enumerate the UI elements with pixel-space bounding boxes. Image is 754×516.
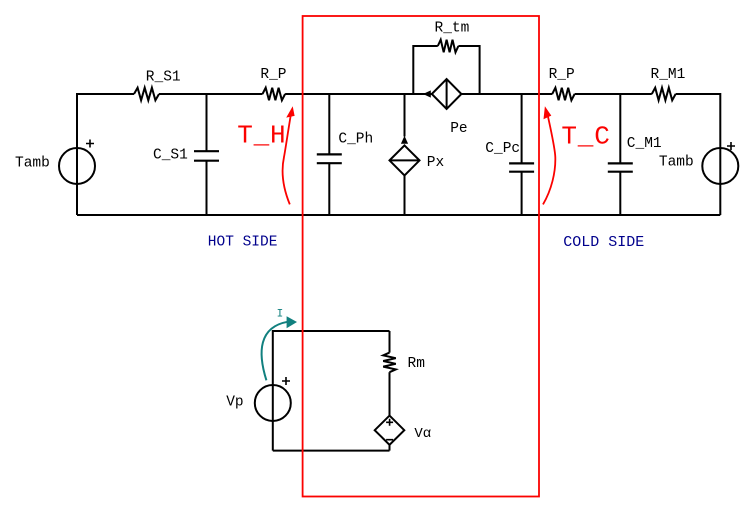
wire: C_S1 branch upper xyxy=(206,94,208,151)
wire: bottom loop bottom xyxy=(273,450,390,452)
wire: top rail left segment (left rail corner to R_S1) xyxy=(77,94,134,215)
capacitor C_Ph xyxy=(317,154,342,163)
wire: bottom loop right upper (to Rm) xyxy=(389,331,391,353)
voltage source Tamb (right) xyxy=(702,142,738,184)
wire: top rail between right R_P and R_M1 xyxy=(575,93,652,95)
wire: C_Pc branch upper xyxy=(521,94,523,163)
svg-text:Pe: Pe xyxy=(450,121,467,137)
resistor R_tm xyxy=(438,40,459,53)
svg-text:I: I xyxy=(277,308,284,320)
controlled source Valpha (diamond voltage source) xyxy=(375,416,405,445)
svg-text:Vp: Vp xyxy=(226,394,243,410)
wire: C_M1 branch upper xyxy=(619,94,621,163)
resistor R_S1 xyxy=(134,88,159,101)
svg-text:Px: Px xyxy=(427,155,445,171)
wire: R_tm loop left leg xyxy=(413,46,438,94)
svg-text:R_tm: R_tm xyxy=(435,21,470,37)
svg-text:Rm: Rm xyxy=(408,356,425,372)
wire: top rail between R_S1 and R_P xyxy=(159,93,263,95)
wire: C_Ph branch upper xyxy=(328,94,330,154)
resistor Rm xyxy=(383,353,396,373)
svg-text:COLD SIDE: COLD SIDE xyxy=(563,234,644,251)
voltage source Tamb (left) xyxy=(59,140,95,185)
svg-text:R_S1: R_S1 xyxy=(146,70,181,86)
voltage source Vp xyxy=(255,377,291,421)
svg-text:C_Ph: C_Ph xyxy=(338,132,373,148)
arrow for node T_H xyxy=(283,106,295,204)
current arrow I xyxy=(262,316,297,380)
svg-text:Tamb: Tamb xyxy=(15,156,50,172)
svg-text:C_M1: C_M1 xyxy=(627,136,662,152)
svg-text:C_Pc: C_Pc xyxy=(485,141,520,157)
wire: C_M1 branch lower xyxy=(619,172,621,215)
wire: bottom rail xyxy=(77,214,720,216)
wire: C_Pc branch lower xyxy=(521,172,523,215)
svg-text:T_C: T_C xyxy=(561,121,610,151)
capacitor C_M1 xyxy=(608,163,633,171)
arrow for node T_C xyxy=(543,106,555,204)
wire: Px branch lower xyxy=(404,175,406,215)
svg-text:HOT SIDE: HOT SIDE xyxy=(208,235,278,251)
svg-text:R_P: R_P xyxy=(549,67,575,83)
wire: Px branch upper xyxy=(404,94,406,137)
svg-text:R_M1: R_M1 xyxy=(651,67,686,83)
svg-text:T_H: T_H xyxy=(237,121,286,151)
capacitor C_Pc xyxy=(509,163,534,171)
wire: bottom loop right lower (Valpha to bottom) xyxy=(389,445,391,451)
resistor R_M1 xyxy=(652,88,676,101)
wire: top rail right segment (R_M1 to right rail corner) xyxy=(676,94,721,215)
controlled source Pe (diamond on top rail) xyxy=(423,79,461,109)
svg-text:Vα: Vα xyxy=(414,426,431,442)
wire: bottom loop right between Rm and Valpha xyxy=(389,372,391,415)
controlled source Px (vertical diamond) xyxy=(390,136,420,176)
wire: bottom loop left + top xyxy=(273,331,390,451)
region boundary box (Peltier module) xyxy=(303,16,539,497)
wire: top rail between R_P and Pe source xyxy=(285,93,432,95)
capacitor C_S1 xyxy=(194,151,219,161)
resistor R_P (hot side) xyxy=(263,88,286,101)
resistor R_P (cold side) xyxy=(552,88,574,101)
svg-text:C_S1: C_S1 xyxy=(153,148,188,164)
wire: top rail between Pe source and right R_P xyxy=(461,93,552,95)
svg-text:R_P: R_P xyxy=(260,67,286,83)
wire: C_Ph branch lower xyxy=(328,163,330,215)
svg-text:Tamb: Tamb xyxy=(659,154,694,170)
wire: C_S1 branch lower xyxy=(206,161,208,215)
wire: R_tm loop right leg xyxy=(458,46,479,94)
